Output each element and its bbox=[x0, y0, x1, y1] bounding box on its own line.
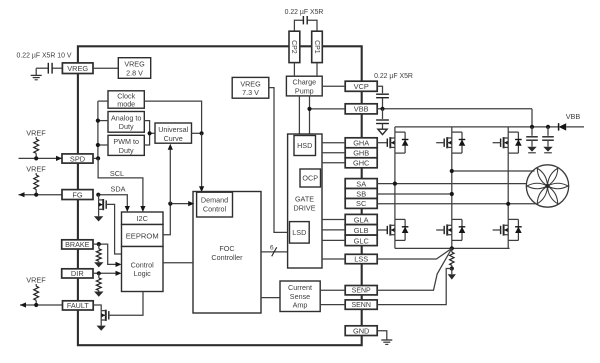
block Analog to Duty bbox=[108, 112, 144, 133]
svg-text:7.3 V: 7.3 V bbox=[242, 88, 259, 97]
junction VBB/charge-pump bbox=[307, 107, 311, 111]
wire: charge pump output left to HSD bbox=[298, 96, 300, 135]
wire: phase A vertical bbox=[394, 127, 396, 132]
svg-text:DRIVE: DRIVE bbox=[294, 203, 316, 212]
wire: CP1 to flying capacitor bbox=[307, 20, 317, 31]
ground symbol (earth) for C1 bbox=[31, 74, 42, 76]
pin GLC bbox=[345, 235, 377, 246]
wire: Charge Pump to VCP pin bbox=[322, 85, 345, 87]
svg-text:GLA: GLA bbox=[354, 215, 369, 224]
svg-text:GHB: GHB bbox=[353, 149, 369, 158]
wire: bridge top supply rail bbox=[395, 126, 559, 128]
svg-text:DIR: DIR bbox=[71, 269, 84, 278]
svg-text:Pump: Pump bbox=[295, 87, 314, 96]
junction FG pin node bbox=[96, 193, 100, 197]
block VREG 7.3 V regulator bbox=[232, 77, 269, 98]
block LSD low-side driver bbox=[290, 222, 310, 244]
wire: gate drive to GLC bbox=[322, 239, 345, 241]
pin CP1 bbox=[312, 31, 323, 62]
junction on FAULT line at R3 bbox=[34, 303, 38, 307]
wire: DIR pin to Control Logic bbox=[93, 272, 117, 274]
block FOC Controller bbox=[193, 192, 261, 314]
capacitor C6 bus bypass bbox=[547, 127, 549, 136]
svg-text:Controller: Controller bbox=[211, 253, 243, 262]
svg-text:mode: mode bbox=[117, 99, 135, 108]
wire: SCL net from SPD pin to I2C bbox=[98, 158, 143, 207]
svg-text:Charge: Charge bbox=[293, 78, 317, 87]
pin BRAKE bbox=[62, 240, 93, 249]
wire: SDA net from FG pin to I2C bbox=[98, 195, 127, 208]
capacitor C3 VCP-VBB bootstrap bbox=[376, 93, 389, 95]
capacitor C5 bus bypass bbox=[531, 127, 533, 136]
IC outer boundary bbox=[78, 46, 362, 345]
pin FAULT bbox=[63, 301, 94, 310]
svg-text:Sense: Sense bbox=[290, 292, 310, 301]
wire: gate drive to GHA bbox=[322, 142, 345, 144]
block OCP bbox=[300, 169, 321, 187]
wire: VREG pin to VREG 2.8V block bbox=[93, 67, 118, 69]
wire: GLB pin to Q6 gate bbox=[377, 229, 387, 231]
block PWM to Duty bbox=[108, 135, 144, 155]
wire: Analog and PWM outputs join to Universal Curve bbox=[144, 121, 149, 145]
capacitor C1 0.22uF bypass on VREG bbox=[47, 63, 49, 74]
arrowhead out of FAULT line bbox=[20, 302, 26, 307]
junction rail/cap C5 bbox=[530, 125, 534, 129]
wire: bus to Analog to Duty bbox=[98, 120, 108, 122]
svg-text:SCL: SCL bbox=[110, 169, 124, 178]
junction demand net bbox=[168, 202, 172, 206]
ground arrow for C6 bbox=[543, 147, 552, 152]
junction on FG line at R2 bbox=[34, 193, 38, 197]
pin CP2 bbox=[289, 31, 300, 62]
junction phase C / SC line bbox=[506, 202, 510, 206]
svg-text:VCP: VCP bbox=[354, 82, 369, 91]
ground arrow for C4 bbox=[378, 129, 387, 134]
wire: Q2 gate from Control Logic bottom bbox=[109, 292, 143, 316]
svg-text:Control: Control bbox=[131, 260, 155, 269]
svg-text:2.8 V: 2.8 V bbox=[126, 68, 143, 77]
svg-text:FAULT: FAULT bbox=[67, 301, 89, 310]
pin DIR bbox=[62, 269, 93, 278]
wire: VBB feed down to bridge rail bbox=[531, 109, 533, 127]
pin GND bbox=[345, 326, 377, 336]
wire: demand net up to Universal Curve bbox=[169, 148, 171, 204]
svg-text:GHC: GHC bbox=[353, 159, 370, 168]
transistor Q2 FAULT open-drain output bbox=[93, 305, 101, 311]
wire: FOC to Current Sense Amp bbox=[261, 297, 280, 299]
arrowhead out of FG line bbox=[19, 192, 25, 197]
junction phase B / motor line bbox=[450, 169, 454, 173]
svg-text:GND: GND bbox=[353, 326, 369, 335]
transistor Q7 low-side phase B with body diode bbox=[443, 226, 445, 234]
pin SC bbox=[345, 199, 377, 209]
svg-text:VREF: VREF bbox=[26, 129, 46, 138]
ground arrow for R5 bbox=[94, 292, 103, 297]
wire: charge pump output right to HSD bbox=[309, 96, 311, 135]
svg-text:GATE: GATE bbox=[295, 195, 314, 204]
block Current Sense Amp bbox=[280, 281, 320, 312]
arrowhead into Demand Control left bbox=[188, 201, 194, 206]
wire: Q1 gate from Control Logic bbox=[106, 204, 121, 254]
pin SB bbox=[345, 189, 377, 199]
pin VREG bbox=[62, 63, 93, 74]
wire: SPD input bus vertical bbox=[97, 101, 99, 158]
svg-text:LSD: LSD bbox=[292, 228, 306, 237]
wire: SENP pin to shunt top node bbox=[377, 248, 452, 290]
ground arrow below shunt bbox=[448, 274, 456, 279]
wire: VCP pin to bootstrap cap bbox=[377, 86, 382, 93]
junction bus/PWM bbox=[96, 143, 100, 147]
wire: FOC to gate drive 6-bit bus bbox=[261, 251, 288, 253]
motor M1 symbol bbox=[526, 165, 568, 207]
pin FG bbox=[62, 190, 93, 200]
pin GHC bbox=[345, 158, 377, 168]
bus slash mark bbox=[272, 247, 277, 256]
resistor R2 pull-up VREF to FG bbox=[35, 173, 37, 175]
block Universal Curve bbox=[155, 123, 192, 143]
ground arrow for Q1 source bbox=[94, 216, 103, 221]
wire: bus to Clock mode bbox=[98, 100, 108, 102]
block Gate Drive outline bbox=[288, 134, 322, 268]
block I2C interface bbox=[122, 212, 164, 225]
svg-text:VBB: VBB bbox=[354, 105, 369, 114]
junction at Universal Curve output bbox=[200, 131, 204, 135]
svg-text:Control: Control bbox=[203, 204, 227, 213]
svg-text:EEPROM: EEPROM bbox=[126, 231, 159, 240]
svg-text:SB: SB bbox=[356, 189, 366, 198]
wire: CP1 into Charge Pump bbox=[316, 63, 318, 77]
svg-text:HSD: HSD bbox=[297, 141, 312, 150]
transistor Q1 FG open-drain output bbox=[98, 195, 100, 200]
wire: Control Logic to FOC Controller bbox=[163, 262, 193, 264]
svg-text:Duty: Duty bbox=[119, 122, 134, 131]
wire: CP2 to flying capacitor bbox=[294, 20, 303, 31]
junction shunt top node bbox=[450, 246, 454, 250]
svg-text:VREG: VREG bbox=[124, 60, 145, 69]
wire: FAULT output line bbox=[20, 304, 63, 306]
svg-text:PWM to: PWM to bbox=[113, 137, 139, 146]
pin SENP bbox=[345, 286, 377, 295]
block Clock mode bbox=[108, 91, 144, 108]
capacitor C2 0.22uF charge-pump flying cap bbox=[302, 16, 304, 24]
svg-text:Duty: Duty bbox=[119, 146, 134, 155]
block EEPROM bbox=[122, 225, 164, 247]
ground arrow for R4 bbox=[94, 262, 103, 267]
wire: VREG 7.3V to LSD bbox=[269, 88, 290, 233]
transistor Q5 high-side phase C with body diode bbox=[500, 139, 502, 147]
svg-text:SA: SA bbox=[356, 179, 366, 188]
svg-text:LSS: LSS bbox=[354, 255, 368, 264]
arrowhead into Universal Curve bottom bbox=[168, 144, 173, 150]
wire: phase B to motor terminal 1 bbox=[452, 170, 535, 172]
junction on SPD line at R1 bbox=[34, 156, 38, 160]
arrowhead into Demand Control top bbox=[199, 186, 204, 192]
svg-text:I2C: I2C bbox=[136, 214, 148, 223]
pin GLB bbox=[345, 225, 377, 236]
junction phase A / SA line bbox=[393, 182, 397, 186]
wire: SC pin to phase C and motor terminal 3 bbox=[377, 203, 535, 205]
wire: bridge bottom rail bbox=[395, 247, 510, 249]
junction at Universal Curve input bbox=[148, 131, 152, 135]
junction shunt bottom node bbox=[450, 266, 454, 270]
svg-text:GLB: GLB bbox=[354, 226, 369, 235]
transistor Q8 low-side phase C with body diode bbox=[500, 226, 502, 234]
svg-text:Current: Current bbox=[288, 283, 312, 292]
svg-text:0.22 µF X5R: 0.22 µF X5R bbox=[285, 9, 324, 16]
svg-text:SC: SC bbox=[356, 199, 367, 208]
svg-text:SENN: SENN bbox=[351, 302, 370, 309]
resistor R6 current shunt bbox=[451, 248, 453, 252]
transistor Q3 high-side phase A with body diode bbox=[386, 139, 388, 147]
wire: gate drive to LSS bbox=[322, 258, 345, 260]
svg-text:SPD: SPD bbox=[70, 154, 85, 163]
ground symbol (earth) at GND pin bbox=[381, 339, 392, 341]
wire: BRAKE pin to Control Logic bbox=[93, 244, 117, 264]
wire: EEPROM to demand net bbox=[163, 204, 190, 235]
svg-text:Amp: Amp bbox=[293, 301, 308, 310]
svg-text:VREF: VREF bbox=[26, 276, 46, 285]
arrowhead SDA into I2C bbox=[125, 206, 130, 212]
pin LSS bbox=[345, 254, 377, 263]
diode D1 reverse-protection from VBB supply bbox=[558, 123, 560, 130]
svg-text:VBB: VBB bbox=[566, 112, 581, 121]
wire: SENN pin to shunt bottom node bbox=[377, 269, 452, 305]
junction VBB external node bbox=[380, 107, 384, 111]
junction BRAKE node bbox=[97, 242, 101, 246]
svg-text:Curve: Curve bbox=[164, 134, 183, 143]
wire: shunt bottom to ground arrow bbox=[451, 269, 453, 275]
wire: FG output line bbox=[19, 194, 63, 196]
svg-text:VREF: VREF bbox=[26, 165, 46, 174]
wire: phase B vertical bbox=[451, 127, 453, 132]
svg-text:Analog to: Analog to bbox=[111, 113, 141, 122]
wire: bus to PWM to Duty bbox=[98, 144, 108, 146]
wire: gate drive to GHB bbox=[322, 152, 345, 154]
junction rail/cap C6 bbox=[546, 125, 550, 129]
svg-text:CP2: CP2 bbox=[290, 40, 297, 54]
wire: SPD input line bbox=[19, 157, 63, 159]
transistor Q6 low-side phase A with body diode bbox=[386, 226, 388, 234]
pin VBB bbox=[345, 104, 377, 114]
wire: SA pin to phase A and motor terminal 2 bbox=[377, 183, 526, 185]
junction bus/SPD pin bbox=[93, 157, 98, 159]
transistor Q4 high-side phase B with body diode bbox=[443, 139, 445, 147]
wire: VBB pin to charge pump rail bbox=[310, 108, 346, 110]
junction bus/Analog bbox=[96, 119, 100, 123]
pin SA bbox=[345, 179, 377, 189]
resistor R1 pull-up VREF to SPD bbox=[35, 137, 37, 139]
wire: Clock mode output to demand line bbox=[144, 101, 201, 133]
wire: VBB pin node bbox=[377, 108, 532, 110]
pin VCP bbox=[345, 81, 377, 91]
svg-text:OCP: OCP bbox=[302, 174, 318, 183]
svg-text:Logic: Logic bbox=[134, 269, 152, 278]
wire: Current Sense Amp to SENN bbox=[320, 304, 345, 306]
wire: demand line down to Demand Control bbox=[201, 133, 203, 187]
junction DIR node bbox=[97, 271, 101, 275]
capacitor C4 VBB bypass bbox=[382, 109, 384, 119]
wire: GHA pin to Q3 gate bbox=[377, 142, 387, 144]
svg-text:FOC: FOC bbox=[219, 244, 234, 253]
block HSD high-side driver bbox=[294, 136, 316, 156]
block Demand Control bbox=[197, 192, 233, 217]
wire: gate drive to GLB bbox=[322, 229, 345, 231]
ground arrow for Q2 source bbox=[97, 326, 106, 331]
svg-text:Demand: Demand bbox=[201, 196, 228, 205]
arrowhead DIR into Control Logic bbox=[116, 271, 122, 276]
wire: phase C vertical bbox=[507, 127, 509, 132]
svg-text:0.22 µF X5R 10 V: 0.22 µF X5R 10 V bbox=[17, 53, 72, 60]
arrowhead into SPD pin bbox=[56, 156, 62, 161]
junction phase B / SB line bbox=[450, 192, 454, 196]
wire: LSS pin to shunt top node bbox=[377, 248, 452, 259]
svg-text:VREG: VREG bbox=[240, 79, 261, 88]
wire: Universal Curve output bbox=[192, 132, 202, 134]
pin SENN bbox=[345, 300, 377, 309]
svg-text:SDA: SDA bbox=[110, 184, 125, 193]
svg-text:GHA: GHA bbox=[353, 139, 369, 148]
pin GHA bbox=[345, 138, 377, 148]
block VREG 2.8 V regulator bbox=[118, 58, 150, 79]
svg-text:6: 6 bbox=[270, 244, 274, 251]
arrowhead BRAKE into Control Logic bbox=[116, 262, 122, 267]
wire: CP2 into Charge Pump bbox=[293, 63, 295, 77]
wire: external VREG bypass net to VREG pin bbox=[52, 67, 62, 69]
wire: gate drive to GLA bbox=[322, 219, 345, 221]
resistor R3 pull-up VREF to FAULT bbox=[35, 284, 37, 286]
svg-text:Universal: Universal bbox=[158, 125, 188, 134]
block Control Logic bbox=[122, 247, 164, 292]
block Charge Pump bbox=[286, 76, 322, 96]
svg-text:BRAKE: BRAKE bbox=[65, 240, 90, 249]
svg-text:GLC: GLC bbox=[354, 236, 370, 245]
wire: Current Sense Amp to SENP bbox=[320, 289, 345, 291]
pin GLA bbox=[345, 214, 377, 224]
resistor R4 BRAKE pull-down bbox=[98, 244, 100, 249]
resistor R5 DIR pull-down bbox=[98, 273, 100, 278]
wire: gate drive to GHC bbox=[322, 162, 345, 164]
pin GHB bbox=[345, 148, 377, 158]
wire: GND pin to ground bbox=[377, 331, 387, 340]
pin SPD bbox=[62, 154, 93, 163]
wire: SB pin to phase B bbox=[377, 193, 452, 195]
ground arrow for C5 bbox=[527, 147, 536, 152]
svg-text:0.22 µF X5R: 0.22 µF X5R bbox=[374, 73, 413, 80]
arrowhead SCL into I2C bbox=[140, 206, 145, 212]
svg-text:FG: FG bbox=[72, 190, 83, 199]
svg-text:CP1: CP1 bbox=[313, 40, 320, 54]
svg-text:VREG: VREG bbox=[67, 64, 88, 73]
svg-text:SENP: SENP bbox=[352, 288, 371, 295]
